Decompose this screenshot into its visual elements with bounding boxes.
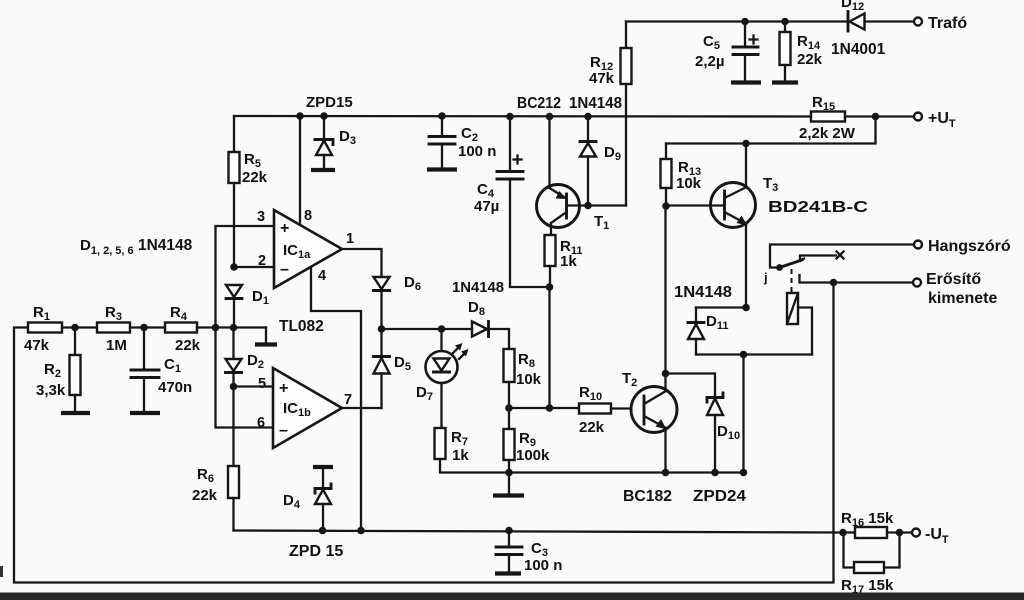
svg-text:47k: 47k (24, 337, 50, 354)
op-amp IC1a (274, 210, 342, 288)
scan artifact left edge mark (0, 566, 3, 577)
wire T2 emitter down (664, 428, 666, 473)
diode D9 (584, 113, 592, 121)
resistor R2 (74, 328, 76, 356)
node D1 bottom junction (230, 324, 238, 332)
rail +UT from R5 top to R15 (234, 115, 811, 118)
rail negative bottom ZPD15 (234, 531, 844, 533)
wire input column (IC1a pin3 to IC1b pin6) (216, 226, 275, 428)
svg-text:ZPD 15: ZPD 15 (289, 543, 343, 560)
transistor T3 BD241 (711, 183, 756, 228)
node T2 emitter junction (662, 469, 670, 477)
node T3 base junction (662, 202, 670, 210)
svg-text:+: + (280, 220, 289, 237)
node D9 anode junction (584, 202, 592, 210)
node C5 junction (741, 18, 749, 26)
resistor R11 (545, 235, 556, 266)
wire D11 loop bottom (696, 353, 812, 355)
wire IC1b pin7 output to D5 (342, 407, 382, 409)
node relay coil top junction (742, 304, 750, 312)
node relay return junction (740, 469, 748, 477)
svg-text:+: + (279, 380, 288, 397)
node D4 bottom (319, 527, 327, 535)
resistor R7 (435, 428, 446, 459)
wire IC1a pin4 supply down (311, 268, 361, 530)
resistor R16 (843, 531, 855, 533)
svg-text:47µ: 47µ (474, 198, 499, 215)
wire D8 to R8 (489, 329, 510, 349)
svg-text:–: – (279, 422, 288, 439)
node pin5 junction (230, 383, 238, 391)
wire left border feedback from amplifier output (14, 283, 834, 583)
terminal -UT (912, 529, 920, 537)
svg-text:3: 3 (257, 209, 265, 225)
node pin8 supply junction (296, 112, 304, 120)
diode D5 (380, 329, 382, 356)
node R16 left junction (839, 529, 847, 537)
ground below R9 (508, 473, 510, 495)
node D7 top junction (438, 325, 446, 333)
svg-text:22k: 22k (242, 169, 268, 186)
scan artifact black bar bottom (0, 593, 1024, 600)
op-amp IC1b (273, 368, 342, 448)
resistor R17 parallel loop (844, 533, 855, 568)
ground below D3 (311, 168, 335, 172)
ground stub right of R4 line (265, 328, 267, 344)
node pin2 junction (230, 263, 238, 271)
wire IC1a pin1 output to D6 (342, 249, 382, 277)
svg-text:1N4148: 1N4148 (569, 95, 622, 112)
node input column junction (212, 324, 220, 332)
node T2 collector junction (662, 370, 670, 378)
wire T3 collector up (745, 144, 747, 188)
svg-text:Erősítő: Erősítő (926, 271, 981, 288)
terminal Hangszoro (914, 241, 922, 249)
wire collector node to D10 (666, 374, 716, 398)
resistor R14 (784, 22, 786, 33)
svg-text:100 n: 100 n (458, 143, 496, 160)
C4 plus sign (514, 158, 522, 160)
node R10 line junction (546, 404, 554, 412)
node C1 junction (140, 324, 148, 332)
capacitor C4 (506, 113, 514, 121)
svg-text:1k: 1k (452, 447, 469, 464)
ground below C1 (130, 411, 160, 415)
node D10 bottom junction (711, 469, 719, 477)
svg-text:22k: 22k (579, 419, 605, 436)
wire IC1a pin 8 (299, 116, 301, 225)
svg-text:BC212: BC212 (517, 95, 561, 112)
relay NO contact to Erosito terminal (800, 275, 914, 283)
transistor T2 BC182 (631, 387, 677, 433)
wire T2 collector up (664, 374, 666, 392)
svg-text:47k: 47k (589, 70, 615, 87)
svg-text:1N4001: 1N4001 (831, 41, 886, 58)
diode D2 (232, 328, 234, 360)
wire D6 node to D8 (382, 328, 473, 330)
svg-text:5: 5 (258, 376, 266, 392)
capacitor C3 (505, 527, 513, 535)
node D5 D6 junction (378, 325, 386, 333)
svg-text:1N4148: 1N4148 (674, 284, 732, 301)
capacitor C2 (438, 112, 446, 120)
svg-text:1M: 1M (106, 337, 127, 354)
diode D8 (472, 322, 487, 337)
node R11 bottom junction (546, 283, 554, 291)
svg-text:3,3k: 3,3k (36, 382, 66, 399)
resistor R12 (625, 22, 627, 49)
svg-text:10k: 10k (516, 371, 542, 388)
svg-text:BC182: BC182 (623, 488, 672, 505)
diode D1 (226, 285, 242, 297)
node +UT junction (872, 113, 880, 121)
svg-text:100k: 100k (516, 447, 550, 464)
svg-text:10k: 10k (676, 175, 702, 192)
svg-text:22k: 22k (175, 337, 201, 354)
node R8 bottom junction (505, 404, 513, 412)
svg-text:2,2k 2W: 2,2k 2W (799, 125, 856, 142)
wire relay bottom node down (742, 355, 744, 473)
svg-text:1N4148: 1N4148 (452, 279, 504, 296)
svg-text:22k: 22k (797, 51, 823, 68)
wire R4 to ground stub (197, 326, 266, 328)
svg-text:j: j (763, 270, 768, 285)
svg-text:TL082: TL082 (279, 318, 324, 335)
LED D7 (426, 351, 458, 383)
ground bar above D4 (313, 465, 333, 469)
svg-text:BD241B-C: BD241B-C (768, 199, 868, 216)
diode D11 (695, 308, 697, 323)
wire +UT node down to T3 collector line (666, 117, 876, 144)
resistor R4 (165, 323, 197, 333)
svg-text:7: 7 (344, 392, 352, 408)
resistor R3 (97, 323, 130, 333)
resistor R5 (233, 116, 235, 152)
wire T1 base to R12 (567, 204, 627, 206)
wire Hangszoro to switch pivot (770, 245, 914, 268)
wire R8 node to R10 (509, 407, 579, 409)
wire R3 to R4 (130, 326, 165, 328)
mark x NC contact (837, 252, 844, 259)
relay NC contact (800, 256, 836, 262)
diode D6 (374, 277, 390, 289)
svg-text:1: 1 (346, 231, 354, 247)
node R16 right junction (896, 529, 904, 537)
node T3 collector junction (742, 140, 750, 148)
wire coil to loop right side (798, 308, 812, 355)
wire IC1a pin2 input (234, 266, 274, 268)
svg-text:Trafó: Trafó (928, 15, 967, 32)
svg-text:R16 15k: R16 15k (841, 510, 894, 529)
svg-text:Hangszóró: Hangszóró (928, 238, 1011, 255)
wire R1 to R3 (62, 326, 97, 328)
LED D7 light arrows (453, 346, 460, 353)
svg-text:4: 4 (318, 268, 326, 284)
svg-text:6: 6 (257, 415, 265, 431)
svg-text:8: 8 (304, 208, 312, 224)
wire T3 emitter down to relay (745, 224, 747, 308)
capacitor C5 (744, 22, 746, 47)
ground below R2 (61, 411, 90, 415)
resistor R6 (232, 387, 234, 467)
terminal Trafo (914, 18, 922, 26)
svg-text:ZPD15: ZPD15 (306, 94, 353, 111)
wire D11 loop top (696, 306, 746, 308)
svg-text:2,2µ: 2,2µ (695, 53, 725, 70)
node D3 junction (320, 112, 328, 120)
svg-text:100 n: 100 n (524, 557, 562, 574)
wire R13 node down to T2 collector (664, 206, 666, 374)
node amplifier output junction (830, 279, 838, 287)
resistor R10 (579, 404, 611, 414)
terminal Erosito (913, 279, 921, 287)
svg-text:1k: 1k (560, 253, 577, 270)
node relay coil bottom junction (740, 351, 748, 359)
transistor T1 BC212 (537, 185, 580, 228)
capacitor C1 (143, 328, 145, 370)
relay coil (787, 293, 798, 324)
diode D12 1N4001 (847, 12, 850, 32)
node switch pivot (776, 264, 783, 271)
C5 plus sign (750, 38, 758, 40)
zener diode D4 ZPD15 (322, 467, 324, 488)
relay switch arm (780, 260, 803, 268)
svg-text:470n: 470n (158, 379, 192, 396)
resistor R9 (508, 408, 510, 429)
node R14 junction (781, 18, 789, 26)
wire R11 node down to R8 line (548, 287, 550, 408)
wire IC1b pin5 input (234, 385, 274, 387)
zener diode D10 ZPD24 (707, 393, 723, 402)
relay actuation dashed line (791, 269, 793, 292)
terminal +UT (914, 113, 922, 121)
rail top trafo (626, 20, 847, 22)
zener diode D3 ZPD15 (323, 116, 325, 139)
svg-text:–: – (280, 261, 289, 278)
node pin4 bottom (357, 527, 365, 535)
resistor R15 (811, 112, 845, 122)
resistor R1 (28, 323, 62, 333)
resistor R13 (665, 144, 667, 160)
node R9 bottom junction (505, 469, 513, 477)
svg-text:ZPD24: ZPD24 (693, 488, 746, 505)
node R2 junction (71, 324, 79, 332)
resistor R8 (504, 349, 515, 382)
svg-text:22k: 22k (192, 487, 218, 504)
svg-text:kimenete: kimenete (928, 290, 997, 307)
